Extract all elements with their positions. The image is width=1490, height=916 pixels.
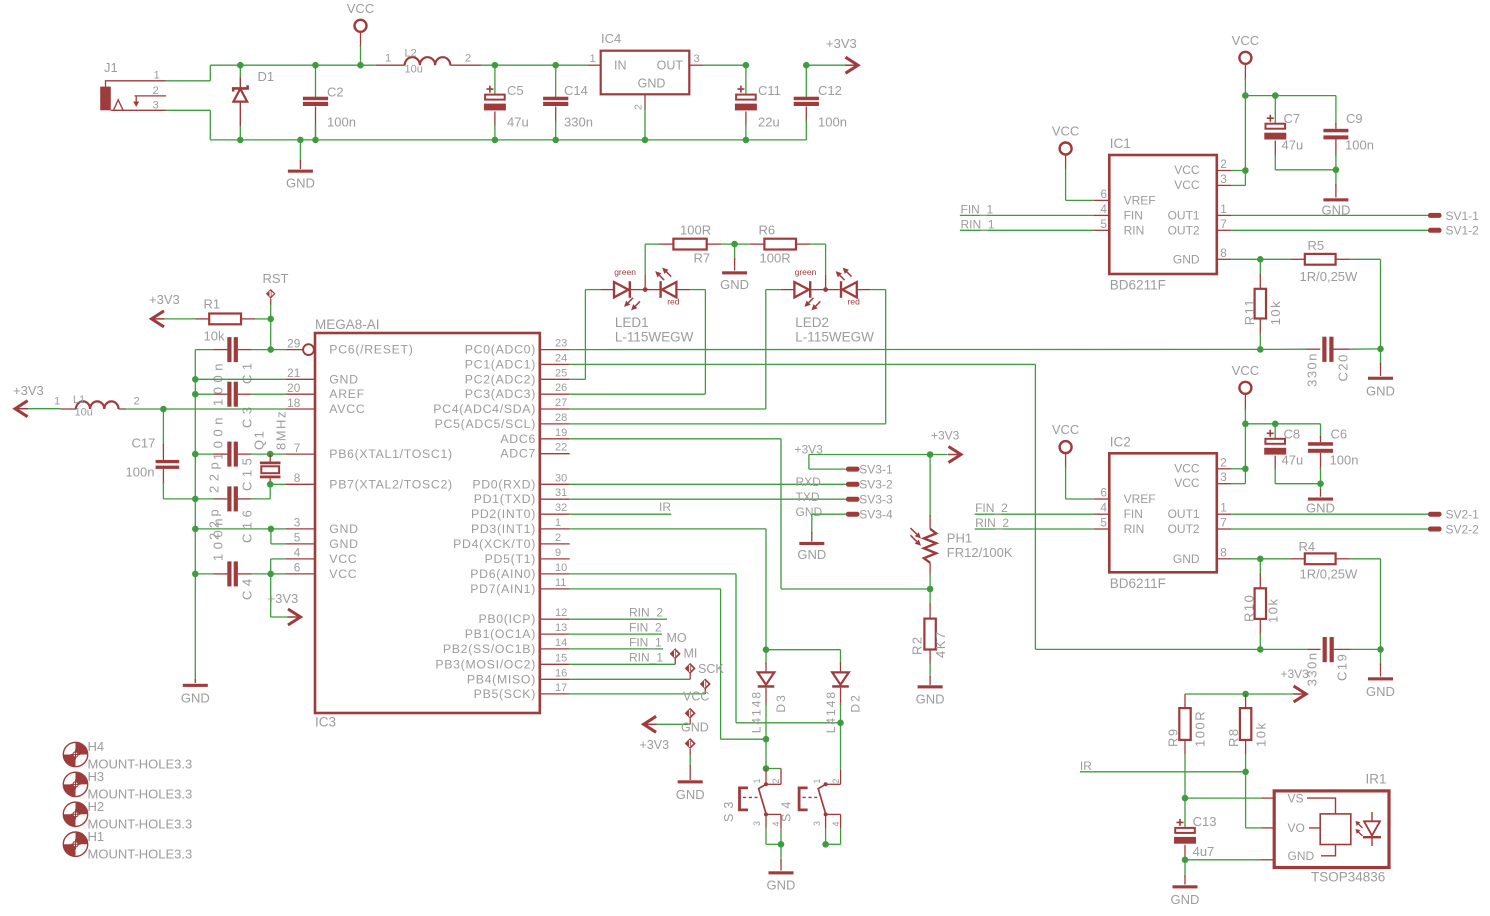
svg-text:C19: C19 [1335, 653, 1350, 681]
svg-text:8: 8 [1220, 545, 1227, 559]
ground GND led divider [734, 244, 736, 260]
svg-text:H1: H1 [88, 829, 105, 844]
svg-text:GND: GND [720, 277, 749, 292]
node INT1 diodes [763, 646, 770, 653]
node C20 gnd [1377, 346, 1384, 353]
svg-text:C1: C1 [240, 358, 255, 384]
svg-text:IC3: IC3 [315, 715, 336, 730]
svg-text:4: 4 [294, 546, 301, 560]
svg-text:SV1-1: SV1-1 [1446, 209, 1480, 223]
pad SV1-2 [1428, 228, 1442, 233]
svg-text:C13: C13 [1193, 814, 1217, 829]
capacitor C13 electrolytic [1184, 798, 1186, 828]
svg-text:PC6(/RESET): PC6(/RESET) [329, 343, 413, 357]
resistor R10 10K [1259, 559, 1261, 575]
svg-text:Q1: Q1 [252, 430, 267, 450]
svg-text:GND: GND [767, 878, 796, 893]
svg-text:4u7: 4u7 [1193, 844, 1215, 859]
svg-text:C14: C14 [564, 83, 588, 98]
svg-text:RIN_2: RIN_2 [629, 606, 663, 620]
svg-text:PC2(ADC2): PC2(ADC2) [465, 372, 536, 386]
node R7-R6 junction [731, 241, 738, 248]
wire RXD to SV3-2 [570, 483, 846, 485]
svg-text:C4: C4 [240, 574, 255, 600]
svg-text:RIN_1: RIN_1 [629, 651, 663, 665]
svg-text:S4: S4 [780, 797, 794, 822]
resistor R7 [659, 243, 673, 245]
svg-text:1: 1 [812, 778, 822, 783]
svg-text:OUT1: OUT1 [1168, 507, 1200, 521]
svg-text:H3: H3 [88, 769, 105, 784]
svg-text:C7: C7 [1284, 111, 1301, 126]
svg-text:GND: GND [916, 692, 945, 707]
IC3 pin29 inversion bubble [303, 344, 314, 355]
svg-text:7: 7 [294, 441, 301, 455]
svg-text:100n: 100n [1330, 453, 1359, 468]
node RST junction [267, 316, 274, 323]
svg-text:8: 8 [294, 471, 301, 485]
svg-text:AVCC: AVCC [329, 402, 365, 416]
wire IC1 pin2 [1217, 170, 1232, 172]
svg-text:7: 7 [1220, 217, 1227, 231]
dual LED LED2 L-115WEGW [766, 289, 781, 291]
svg-text:VS: VS [1288, 791, 1304, 805]
svg-text:GND: GND [1171, 892, 1200, 907]
svg-text:31: 31 [555, 487, 567, 499]
svg-text:26: 26 [555, 382, 567, 394]
svg-text:PB2(SS/OC1B): PB2(SS/OC1B) [443, 642, 536, 656]
capacitor C1 [195, 349, 213, 351]
wire to VO [1245, 772, 1247, 828]
diode D2 L4148 [840, 650, 842, 665]
wire VCC pin4 [271, 558, 286, 560]
wire IC4 GND pin [644, 94, 646, 110]
pad SV2-1 [1428, 512, 1442, 517]
svg-text:VCC: VCC [1174, 163, 1200, 177]
ground rail left [194, 350, 196, 682]
svg-text:GND: GND [796, 505, 823, 519]
svg-text:C3: C3 [240, 402, 255, 428]
svg-text:J1: J1 [104, 60, 118, 75]
capacitor C16 [192, 496, 199, 503]
ground GND C20 [1380, 349, 1382, 365]
svg-text:1R/0,25W: 1R/0,25W [1300, 269, 1359, 284]
wire TXD to SV3-3 [570, 498, 846, 500]
wire PC3 to LED1 right [570, 393, 706, 395]
capacitor C15 [192, 451, 199, 458]
voltage regulator IC4 [587, 64, 600, 66]
svg-text:OUT: OUT [657, 59, 684, 73]
svg-text:PD1(TXD): PD1(TXD) [474, 492, 536, 506]
wire MISO to testpoint [570, 678, 691, 680]
svg-text:PD3(INT1): PD3(INT1) [471, 522, 536, 536]
resistor R9 100R [1184, 694, 1186, 708]
wire LED1 center riser [644, 274, 646, 289]
svg-text:IN: IN [614, 59, 627, 73]
wire FIN_1 to IC1 [960, 214, 1094, 216]
svg-text:5: 5 [294, 531, 301, 545]
svg-text:R2: R2 [910, 635, 925, 655]
svg-text:FIN_1: FIN_1 [961, 202, 994, 216]
wire RIN_1 to IC1 [960, 229, 1094, 231]
switch S4 [840, 770, 842, 784]
svg-text:R5: R5 [1308, 238, 1325, 253]
svg-text:RIN: RIN [1124, 522, 1145, 536]
svg-text:1: 1 [154, 70, 160, 82]
svg-text:5: 5 [1100, 217, 1107, 231]
svg-text:2: 2 [771, 778, 781, 783]
svg-text:100R: 100R [760, 251, 791, 266]
diode D1 zener [239, 65, 241, 77]
wire vcc caps IC2 [1245, 423, 1320, 425]
wire FIN_2 net [570, 633, 662, 635]
svg-text:330n: 330n [1305, 352, 1320, 387]
testpoint VCC [700, 679, 711, 690]
svg-text:PC3(ADC3): PC3(ADC3) [465, 387, 536, 401]
svg-text:10u: 10u [75, 407, 93, 419]
svg-text:GND: GND [286, 176, 315, 191]
pad SV3-1 [808, 455, 810, 470]
svg-text:4K7: 4K7 [933, 630, 948, 658]
supply VCC IC1 vref [1060, 143, 1072, 155]
svg-text:TXD: TXD [796, 490, 820, 504]
svg-text:30: 30 [555, 472, 567, 484]
svg-text:BD6211F: BD6211F [1110, 278, 1166, 293]
svg-text:C8: C8 [1284, 426, 1301, 441]
supply +3V3 arrow testpoint [644, 716, 657, 732]
svg-text:1: 1 [1220, 202, 1227, 216]
svg-text:PH1: PH1 [947, 530, 972, 545]
svg-text:R1: R1 [204, 297, 221, 312]
svg-text:3: 3 [812, 821, 822, 826]
svg-text:C11: C11 [758, 83, 781, 98]
svg-text:23: 23 [555, 338, 567, 350]
ground GND switches [780, 844, 782, 861]
svg-text:3: 3 [1220, 172, 1227, 186]
svg-text:7: 7 [1220, 516, 1227, 530]
svg-text:FIN_2: FIN_2 [975, 501, 1008, 515]
svg-text:14: 14 [555, 637, 567, 649]
svg-text:D3: D3 [774, 693, 788, 712]
svg-text:+3V3: +3V3 [1281, 667, 1310, 681]
svg-text:SV2-2: SV2-2 [1446, 522, 1480, 536]
svg-text:FIN: FIN [1124, 208, 1143, 222]
wire PC5 to LED2 right [570, 423, 886, 425]
svg-text:22u: 22u [758, 115, 780, 130]
ground GND C13 [1184, 860, 1186, 877]
svg-text:+3V3: +3V3 [268, 591, 299, 606]
svg-text:32: 32 [555, 502, 567, 514]
svg-text:3: 3 [752, 821, 762, 826]
node IR R8 [1242, 769, 1249, 776]
wire VS [1185, 797, 1262, 799]
wire VCC pin6 [271, 573, 286, 575]
wire PC0 to R11 node [570, 348, 1261, 350]
svg-text:12: 12 [555, 607, 567, 619]
svg-text:FIN_1: FIN_1 [629, 636, 662, 650]
svg-text:PD4(XCK/T0): PD4(XCK/T0) [453, 537, 536, 551]
svg-text:+3V3: +3V3 [13, 383, 44, 398]
wire OUT2 to SV2-2 [1217, 528, 1232, 530]
svg-text:1: 1 [752, 778, 762, 783]
supply +3V3 arrow top [806, 64, 845, 66]
capacitor C17 [162, 409, 164, 446]
svg-text:FR12/100K: FR12/100K [947, 545, 1013, 560]
svg-text:IC1: IC1 [1110, 136, 1131, 151]
svg-text:SV3-2: SV3-2 [859, 478, 893, 492]
svg-text:SV2-1: SV2-1 [1446, 508, 1480, 522]
svg-text:OUT2: OUT2 [1168, 223, 1200, 237]
svg-text:4: 4 [831, 821, 841, 826]
mount hole H4 [63, 742, 87, 766]
wire FIN_2 to IC2 [975, 513, 1094, 515]
capacitor C7 electrolytic [1274, 96, 1276, 124]
resistor R8 10K [1245, 694, 1247, 708]
crystal Q1 [269, 454, 271, 461]
svg-text:GND: GND [1366, 684, 1395, 699]
svg-text:IR1: IR1 [1366, 772, 1387, 787]
svg-text:GND: GND [181, 691, 210, 706]
svg-text:3: 3 [294, 516, 301, 530]
supply VCC IC1 top [1239, 52, 1251, 64]
svg-text:PB6(XTAL1/TOSC1): PB6(XTAL1/TOSC1) [329, 447, 453, 461]
svg-text:C5: C5 [507, 83, 524, 98]
svg-text:2: 2 [153, 85, 159, 97]
svg-text:100R: 100R [1193, 710, 1208, 747]
svg-text:24: 24 [555, 352, 567, 364]
svg-text:R6: R6 [759, 223, 776, 238]
svg-text:FIN: FIN [1124, 507, 1143, 521]
svg-text:VCC: VCC [1232, 363, 1259, 378]
inductor L2 [376, 64, 405, 66]
svg-text:2: 2 [1220, 157, 1227, 171]
node IC2 vcc [1242, 466, 1249, 473]
wire IR1 GND [1185, 859, 1262, 861]
svg-text:R11: R11 [1242, 298, 1257, 325]
wire LED2 center riser [825, 244, 827, 274]
supply VCC top [355, 20, 367, 32]
microcontroller IC3 MEGA8-AI [315, 333, 540, 713]
wire OUT2 to SV1-2 [1217, 229, 1232, 231]
svg-text:H4: H4 [88, 739, 105, 754]
svg-text:2: 2 [465, 53, 471, 65]
resistor R2 4K7 [929, 589, 931, 605]
wire XTAL2 row [267, 481, 274, 488]
svg-text:red: red [848, 297, 861, 307]
wire IC2 pin2 [1217, 468, 1232, 470]
wire RST to pin29 [270, 319, 272, 350]
switch S3 [763, 765, 770, 772]
svg-text:FIN_2: FIN_2 [629, 621, 662, 635]
wire PC1 to R10 node [570, 363, 1036, 365]
svg-text:C20: C20 [1336, 353, 1351, 381]
svg-text:SV1-2: SV1-2 [1446, 224, 1480, 238]
svg-text:6: 6 [1100, 486, 1107, 500]
svg-text:PC4(ADC4/SDA): PC4(ADC4/SDA) [433, 402, 536, 416]
svg-text:1: 1 [54, 396, 60, 408]
testpoint GND [689, 718, 691, 724]
supply +3V3 arrow IR [1185, 693, 1246, 695]
svg-text:IR: IR [659, 500, 671, 514]
resistor R1 [195, 318, 209, 320]
wire ADC6 to PH1 node [570, 438, 781, 440]
resistor R4 1R [1260, 558, 1290, 560]
svg-text:OUT1: OUT1 [1168, 208, 1200, 222]
dual LED LED1 L-115WEGW [585, 289, 600, 291]
node IC1 sense [1257, 256, 1264, 263]
wire SCK to testpoint [570, 693, 706, 695]
svg-text:C16: C16 [240, 506, 255, 543]
svg-text:green: green [614, 267, 636, 277]
svg-text:PB0(ICP): PB0(ICP) [478, 612, 536, 626]
svg-text:RIN: RIN [1124, 223, 1145, 237]
svg-text:PC0(ADC0): PC0(ADC0) [465, 343, 536, 357]
svg-text:IR: IR [1080, 759, 1092, 773]
svg-text:+3V3: +3V3 [149, 292, 180, 307]
svg-text:C17: C17 [132, 436, 156, 451]
svg-text:PD5(T1): PD5(T1) [485, 552, 536, 566]
wire AVCC row [160, 406, 167, 413]
svg-text:R4: R4 [1299, 539, 1316, 554]
svg-text:C6: C6 [1331, 426, 1348, 441]
capacitor C8 electrolytic [1274, 424, 1276, 439]
svg-text:BD6211F: BD6211F [1110, 576, 1166, 591]
svg-text:VCC: VCC [1232, 33, 1259, 48]
svg-text:2: 2 [831, 778, 841, 783]
node VCC IC2 caps [1242, 421, 1249, 428]
node VCC IC1 [1242, 92, 1249, 99]
svg-text:15: 15 [555, 652, 567, 664]
svg-text:SV3-4: SV3-4 [859, 508, 893, 522]
svg-text:PC1(ADC1): PC1(ADC1) [465, 357, 536, 371]
resistor R11 10k [1259, 259, 1261, 275]
wire RIN_2 net [570, 618, 667, 620]
pad SV1-1 [1428, 213, 1442, 218]
svg-text:47u: 47u [507, 115, 529, 130]
wire XTAL1 row [267, 451, 274, 458]
svg-text:8: 8 [1220, 246, 1227, 260]
svg-text:PD2(INT0): PD2(INT0) [471, 507, 536, 521]
pad SV2-2 [1428, 527, 1442, 532]
svg-text:2: 2 [134, 396, 140, 408]
capacitor C20 330n [1260, 348, 1305, 350]
ground GND IC2 caps [1320, 484, 1322, 490]
svg-text:GND: GND [329, 522, 358, 536]
svg-text:VCC: VCC [329, 552, 357, 566]
svg-text:red: red [667, 297, 680, 307]
svg-text:MOUNT-HOLE3.3: MOUNT-HOLE3.3 [88, 846, 193, 861]
wire IR net from PD2 [570, 513, 672, 515]
svg-text:ADC6: ADC6 [500, 432, 536, 446]
node C13 gnd [1182, 857, 1189, 864]
node R11 C20 [1257, 346, 1264, 353]
svg-text:SV3-1: SV3-1 [859, 463, 893, 477]
wire OUT1 to SV2-1 [1217, 513, 1232, 515]
motor driver IC2 BD6211F [1109, 453, 1217, 572]
capacitor C12 [805, 65, 807, 97]
svg-text:R7: R7 [694, 251, 711, 266]
svg-text:AREF: AREF [329, 387, 365, 401]
supply VCC IC2 mid [1239, 382, 1251, 394]
inductor L1 [61, 408, 76, 410]
svg-text:GND: GND [1366, 384, 1395, 399]
svg-text:TSOP34836: TSOP34836 [1311, 870, 1385, 885]
node IC1 vcc [1242, 167, 1249, 174]
svg-text:VCC: VCC [329, 567, 357, 581]
svg-text:17: 17 [555, 682, 567, 694]
svg-text:1: 1 [385, 53, 391, 65]
svg-text:+3V3: +3V3 [640, 738, 670, 752]
svg-text:VCC: VCC [1174, 178, 1200, 192]
wire J1 pin1 to node [166, 80, 211, 82]
svg-text:2: 2 [633, 104, 645, 110]
svg-text:GND: GND [638, 77, 666, 91]
svg-text:R10: R10 [1242, 594, 1257, 622]
wire IC2 GND pin8 [1217, 558, 1232, 560]
svg-text:GND: GND [329, 372, 358, 386]
svg-text:21: 21 [287, 366, 300, 380]
wire FIN_1 net [570, 648, 663, 650]
wire GND pin21 [192, 376, 199, 383]
wire VCC top rail [210, 64, 375, 66]
svg-text:RIN_1: RIN_1 [961, 217, 995, 231]
testpoint SCK [685, 663, 696, 674]
svg-text:100n: 100n [211, 514, 226, 561]
supply +3V3 arrow VCC [270, 574, 272, 617]
svg-text:PC5(ADC5/SCL): PC5(ADC5/SCL) [435, 417, 536, 431]
node D3 PD7 junction [763, 736, 770, 743]
svg-text:VO: VO [1288, 821, 1305, 835]
svg-text:100n: 100n [211, 413, 226, 460]
svg-text:3: 3 [694, 53, 700, 65]
svg-text:PB1(OC1A): PB1(OC1A) [465, 627, 536, 641]
svg-text:10k: 10k [1268, 300, 1283, 325]
svg-text:11: 11 [555, 577, 566, 589]
svg-text:4: 4 [1100, 501, 1107, 515]
wire GND pin5 [270, 529, 272, 544]
svg-text:1: 1 [555, 517, 561, 529]
svg-text:VCC: VCC [347, 1, 374, 16]
svg-text:IC2: IC2 [1110, 434, 1131, 449]
svg-text:20: 20 [287, 381, 301, 395]
svg-text:28: 28 [555, 412, 567, 424]
svg-text:GND: GND [1173, 552, 1200, 566]
svg-text:GND: GND [1288, 849, 1315, 863]
node VS C13 [1182, 795, 1189, 802]
wire switches common [778, 841, 785, 848]
wire vcc caps IC1 [1245, 95, 1336, 97]
svg-text:27: 27 [555, 397, 567, 409]
svg-text:10k: 10k [1266, 598, 1281, 623]
wire OUT1 to SV1-1 [1217, 214, 1232, 216]
svg-text:47u: 47u [1282, 138, 1304, 153]
node C19 gnd [1377, 646, 1384, 653]
wire RIN_1 net to testpoint [570, 663, 676, 665]
svg-text:VCC: VCC [683, 690, 709, 704]
svg-text:1: 1 [1220, 501, 1227, 515]
svg-text:VREF: VREF [1124, 492, 1156, 506]
svg-text:D2: D2 [849, 693, 863, 712]
svg-text:PD0(RXD): PD0(RXD) [472, 477, 536, 491]
svg-text:GND: GND [676, 787, 705, 802]
svg-text:+3V3: +3V3 [826, 36, 857, 51]
svg-text:RXD: RXD [796, 475, 822, 489]
svg-text:VREF: VREF [1124, 193, 1156, 207]
svg-text:4: 4 [1100, 202, 1107, 216]
svg-text:LED1: LED1 [615, 315, 649, 330]
svg-text:16: 16 [555, 667, 567, 679]
svg-text:2: 2 [555, 532, 561, 544]
